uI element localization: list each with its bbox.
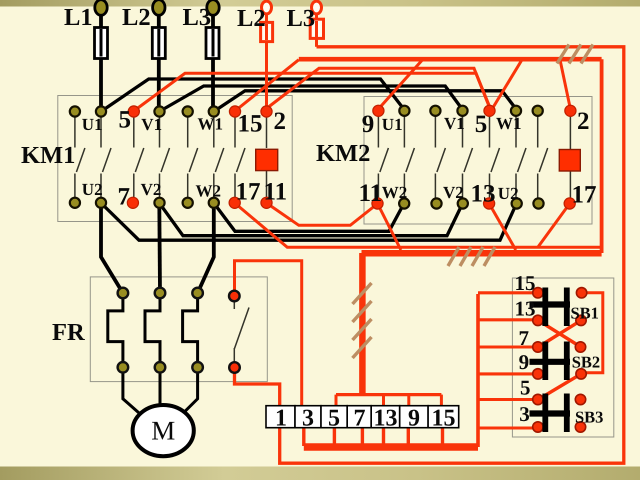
svg-text:3: 3 xyxy=(519,402,530,426)
svg-text:5: 5 xyxy=(328,406,340,432)
svg-text:15: 15 xyxy=(432,406,456,432)
svg-text:3: 3 xyxy=(302,406,314,432)
svg-text:13: 13 xyxy=(374,406,398,432)
svg-text:7: 7 xyxy=(354,406,366,432)
svg-text:FR: FR xyxy=(52,319,85,346)
svg-text:7: 7 xyxy=(519,326,530,350)
svg-text:11: 11 xyxy=(359,180,383,207)
svg-text:W1: W1 xyxy=(198,115,224,134)
svg-text:9: 9 xyxy=(362,111,375,138)
svg-text:L2: L2 xyxy=(237,5,266,32)
svg-text:SB1: SB1 xyxy=(571,304,599,323)
svg-text:W2: W2 xyxy=(196,182,222,201)
svg-text:11: 11 xyxy=(264,178,288,205)
svg-text:KM2: KM2 xyxy=(316,140,370,167)
svg-text:M: M xyxy=(151,416,175,446)
svg-text:17: 17 xyxy=(236,178,261,205)
svg-text:V1: V1 xyxy=(444,114,465,133)
svg-text:13: 13 xyxy=(515,297,536,321)
svg-text:7: 7 xyxy=(118,184,131,211)
svg-text:2: 2 xyxy=(274,108,287,135)
svg-text:9: 9 xyxy=(519,350,530,374)
svg-text:1: 1 xyxy=(275,406,287,432)
svg-text:5: 5 xyxy=(520,376,531,400)
svg-text:L3: L3 xyxy=(183,4,212,31)
svg-text:SB3: SB3 xyxy=(575,408,603,427)
svg-text:5: 5 xyxy=(475,111,488,138)
svg-text:5: 5 xyxy=(119,107,132,134)
svg-text:W2: W2 xyxy=(382,183,408,202)
svg-text:SB2: SB2 xyxy=(572,353,600,372)
svg-text:V2: V2 xyxy=(141,180,162,199)
svg-text:U1: U1 xyxy=(82,115,103,134)
svg-text:V2: V2 xyxy=(443,183,464,202)
svg-text:9: 9 xyxy=(408,406,420,432)
svg-text:L3: L3 xyxy=(287,5,316,32)
svg-text:U2: U2 xyxy=(498,184,519,203)
svg-text:U2: U2 xyxy=(82,180,103,199)
svg-text:V1: V1 xyxy=(141,115,162,134)
svg-text:2: 2 xyxy=(577,108,590,135)
svg-text:W1: W1 xyxy=(496,114,522,133)
svg-text:17: 17 xyxy=(572,182,597,209)
svg-text:13: 13 xyxy=(471,181,496,208)
svg-text:KM1: KM1 xyxy=(21,142,75,169)
svg-text:15: 15 xyxy=(515,271,536,295)
svg-text:L2: L2 xyxy=(122,4,151,31)
svg-text:15: 15 xyxy=(238,111,263,138)
svg-text:L1: L1 xyxy=(64,4,93,31)
svg-text:U1: U1 xyxy=(382,115,403,134)
